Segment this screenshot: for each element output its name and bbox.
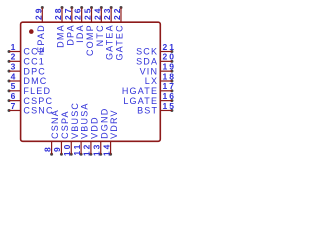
svg-text:5: 5 xyxy=(11,81,18,91)
svg-text:4: 4 xyxy=(11,71,18,81)
svg-text:VDRV: VDRV xyxy=(109,109,119,139)
svg-text:IDA: IDA xyxy=(75,24,85,43)
svg-text:EPAD: EPAD xyxy=(36,24,46,53)
svg-text:8: 8 xyxy=(42,145,52,152)
svg-text:CSNA: CSNA xyxy=(50,109,60,139)
svg-text:CC1: CC1 xyxy=(23,57,45,67)
svg-text:SCK: SCK xyxy=(136,47,158,57)
svg-text:17: 17 xyxy=(163,81,176,91)
svg-text:13: 13 xyxy=(92,143,102,156)
svg-text:9: 9 xyxy=(52,145,62,152)
svg-text:23: 23 xyxy=(102,7,112,20)
svg-text:HGATE: HGATE xyxy=(122,86,158,96)
svg-text:SDA: SDA xyxy=(136,57,158,67)
svg-text:2: 2 xyxy=(11,52,18,62)
svg-text:VDD: VDD xyxy=(90,116,100,139)
svg-text:FLED: FLED xyxy=(23,86,51,96)
svg-text:26: 26 xyxy=(73,7,83,20)
svg-text:CSPC: CSPC xyxy=(23,96,53,106)
svg-text:25: 25 xyxy=(82,7,92,20)
svg-text:15: 15 xyxy=(163,101,176,111)
svg-text:14: 14 xyxy=(101,143,111,156)
svg-text:DMC: DMC xyxy=(23,76,47,86)
svg-text:DPC: DPC xyxy=(23,66,46,76)
svg-text:BST: BST xyxy=(137,106,158,116)
svg-text:19: 19 xyxy=(163,62,176,72)
svg-text:COMP: COMP xyxy=(85,24,95,56)
svg-text:DPA: DPA xyxy=(65,24,75,45)
svg-text:22: 22 xyxy=(112,7,122,20)
svg-text:24: 24 xyxy=(92,7,102,20)
svg-text:12: 12 xyxy=(82,143,92,156)
svg-text:VIN: VIN xyxy=(140,66,159,76)
svg-text:LGATE: LGATE xyxy=(123,96,158,106)
svg-text:DMA: DMA xyxy=(56,24,66,48)
svg-text:29: 29 xyxy=(33,7,43,20)
svg-text:7: 7 xyxy=(11,101,18,111)
svg-text:18: 18 xyxy=(163,71,176,81)
svg-text:CSPA: CSPA xyxy=(60,110,70,139)
svg-text:NTC: NTC xyxy=(95,24,105,46)
svg-text:LX: LX xyxy=(145,76,158,86)
svg-text:10: 10 xyxy=(62,143,72,156)
svg-text:1: 1 xyxy=(11,42,18,52)
svg-text:CSNC: CSNC xyxy=(23,106,53,116)
svg-text:21: 21 xyxy=(163,42,176,52)
svg-text:GATEA: GATEA xyxy=(105,24,115,60)
svg-text:27: 27 xyxy=(63,7,73,20)
svg-text:11: 11 xyxy=(72,143,82,156)
svg-text:VBUSA: VBUSA xyxy=(80,102,90,139)
svg-text:28: 28 xyxy=(53,7,63,20)
svg-text:20: 20 xyxy=(163,52,176,62)
svg-text:GATEC: GATEC xyxy=(115,24,125,60)
svg-text:VBUSC: VBUSC xyxy=(70,102,80,139)
svg-text:16: 16 xyxy=(163,91,176,101)
svg-text:DGND: DGND xyxy=(99,108,109,139)
svg-text:3: 3 xyxy=(11,62,18,72)
svg-text:6: 6 xyxy=(11,91,18,101)
